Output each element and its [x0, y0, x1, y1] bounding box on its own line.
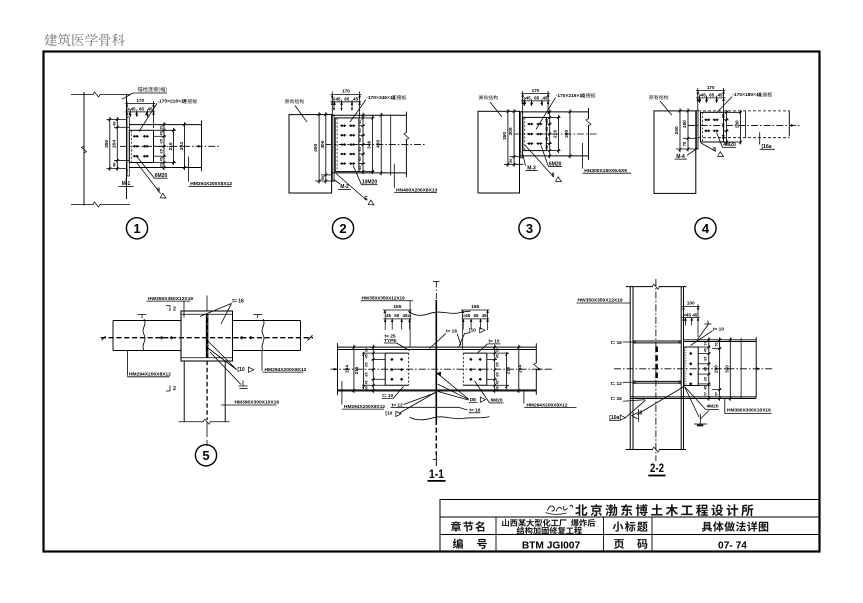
detail 1: detail number circle 1 — [126, 218, 147, 239]
section 1-1: right bolt pitch chain — [487, 352, 509, 354]
detail 1: dimension row 10 45 65 45 — [125, 111, 155, 113]
svg-text:45: 45 — [358, 120, 362, 124]
svg-text:170: 170 — [707, 85, 715, 90]
detail 2: dim chain 400 right — [380, 113, 382, 176]
section 2-2: leader plate corner to bottom weld — [685, 387, 700, 418]
svg-text:65: 65 — [496, 372, 500, 376]
svg-text:55: 55 — [722, 114, 726, 118]
detail 2: hidden plate edge dashed — [336, 118, 338, 172]
detail 3: dim chain 216 — [558, 115, 560, 153]
svg-text:70: 70 — [722, 123, 726, 127]
detail 3: end plate M-3 edge strip — [521, 112, 523, 158]
detail 5: column web double line — [205, 314, 207, 358]
section 2-2: weld flag lower — [700, 411, 709, 420]
section 1-1: upper break wave — [409, 311, 471, 315]
detail 4: bolt gauge arrows — [698, 96, 700, 100]
section 1-1: leader fan to D8 — [438, 374, 469, 400]
section 2-2: beam top flange double line — [684, 339, 757, 341]
detail 5: column box outline — [181, 311, 233, 361]
section 1-1: left plate bolts — [390, 358, 393, 361]
detail 1: column grid line — [83, 92, 85, 206]
detail 2: beam top flange — [332, 114, 406, 116]
detail 4: existing wall outline — [654, 111, 696, 193]
detail 5: left beam outline — [113, 320, 181, 322]
section 1-1: right dim row 10 45 65 45 — [461, 318, 489, 320]
detail 3: detail number circle 3 — [519, 218, 540, 239]
detail 1: bolt gauge arrows — [129, 110, 131, 115]
section 2-2: dim chain 53 280 57 — [712, 347, 722, 349]
title block: row label 编号 — [453, 538, 463, 548]
section 2-2: column left flange double line — [629, 287, 631, 450]
detail 3: beam break end line — [588, 108, 590, 119]
section 1-1: left end dim chain 216 — [363, 352, 365, 389]
svg-text:-170×180×10: -170×180×10 — [732, 92, 761, 98]
svg-text:t= 10: t= 10 — [713, 326, 724, 332]
svg-text:216: 216 — [168, 142, 174, 150]
svg-text:2-2: 2-2 — [650, 461, 664, 475]
detail 1: left dim chain 48 204 48 — [114, 126, 129, 128]
detail 4: dim chain 180 right — [740, 110, 742, 145]
detail 4: dimension 170 top — [697, 88, 699, 111]
detail 4: channel designation 16a — [759, 132, 761, 144]
detail 5: weld tee mark right — [253, 314, 262, 316]
svg-text:1: 1 — [133, 221, 140, 236]
svg-text:65: 65 — [545, 137, 549, 141]
section 2-2: bolt splice plate — [684, 347, 698, 386]
detail 5: detail number circle 5 — [195, 445, 216, 466]
detail 3: bolt gauge arrows — [523, 99, 525, 103]
detail 1: connection plate face — [129, 130, 153, 162]
detail 5: bottom beam end cut line with break — [179, 421, 204, 423]
section 2-2: extension line — [740, 338, 742, 398]
svg-text:65: 65 — [358, 128, 362, 132]
detail 1: end plate M-1 edge strip — [127, 117, 129, 176]
svg-text:07- 74: 07- 74 — [718, 541, 747, 552]
section 1-1: left dim row 45 65 45 10 — [383, 318, 411, 320]
detail 1: beam top flange — [129, 124, 201, 126]
detail 2: left dim chain 400/50 — [325, 112, 327, 183]
detail 1: section mark 8 — [137, 163, 161, 194]
section 2-2: section mark 8 lower — [637, 387, 684, 415]
detail 4: beam centerline — [688, 124, 800, 126]
section 2-2: dim row 10 45 45 — [682, 317, 700, 319]
detail 2: connection plate face — [335, 118, 359, 172]
svg-text:65: 65 — [365, 362, 369, 366]
section 1-1: beam bottom flange thick line — [338, 389, 537, 391]
svg-text:37: 37 — [703, 342, 707, 346]
detail 1: column mid break symbol — [82, 146, 87, 153]
svg-text:45: 45 — [159, 131, 163, 135]
detail 2: section mark E — [336, 174, 367, 201]
detail 1: column bottom cut line with break — [71, 204, 94, 206]
svg-text:400: 400 — [320, 140, 326, 148]
section 2-2: beam bottom flange level t=16 — [630, 396, 756, 398]
section 1-1: left bolt pitch chain — [362, 352, 385, 354]
svg-text:45: 45 — [482, 313, 488, 318]
svg-text:165: 165 — [393, 304, 401, 310]
detail 4: section mark 8 — [701, 143, 716, 152]
detail 4: channel top flange hidden line — [698, 110, 789, 112]
detail 3: left dim chain 300/50 — [513, 109, 515, 167]
svg-text:-170×216×10: -170×216×10 — [556, 93, 585, 99]
svg-text:180: 180 — [682, 120, 688, 128]
detail 2: end plate M-2 edge strip — [332, 115, 334, 181]
svg-text:300: 300 — [508, 127, 514, 135]
section 1-1: beam centerline — [331, 368, 554, 370]
section 1-1: left end dim chain 294 — [353, 345, 355, 393]
svg-text:55: 55 — [722, 134, 726, 138]
svg-text:65: 65 — [344, 96, 350, 101]
section 1-1: left dim 165 — [384, 310, 386, 330]
svg-text:50: 50 — [320, 176, 325, 180]
svg-text:45: 45 — [526, 96, 532, 101]
svg-text:3: 3 — [526, 221, 533, 236]
svg-text:70: 70 — [682, 141, 687, 146]
svg-text:346: 346 — [367, 140, 373, 148]
detail 5: left beam break curve — [143, 319, 145, 351]
svg-text:45: 45 — [130, 107, 136, 112]
svg-text:65: 65 — [703, 367, 707, 371]
svg-text:65: 65 — [139, 107, 145, 112]
svg-text:45: 45 — [542, 96, 548, 101]
detail 4: channel bottom flange hidden line — [698, 137, 789, 139]
svg-text:45: 45 — [496, 380, 500, 384]
section 1-1: beam right break end line — [535, 343, 537, 363]
section 1-1: right end dim chain 294 — [518, 345, 520, 393]
detail 4: channel end line — [788, 110, 790, 136]
detail 2: bolts 10M20 — [341, 124, 343, 127]
svg-text:45: 45 — [496, 354, 500, 358]
detail 2: existing wall outline — [289, 115, 332, 193]
detail 2: dimension row 10 45 65 45 — [331, 101, 362, 103]
svg-text:204: 204 — [111, 140, 117, 148]
svg-text:350: 350 — [502, 132, 508, 140]
section 1-1: left splice plate — [385, 352, 409, 354]
svg-text:250: 250 — [674, 126, 680, 134]
svg-text:2: 2 — [173, 386, 176, 392]
svg-text:45: 45 — [686, 312, 692, 317]
svg-text:45: 45 — [159, 157, 163, 161]
section 2-2: dim chain 390 — [729, 337, 731, 401]
svg-text:BTM JGI007: BTM JGI007 — [522, 541, 581, 552]
svg-text:45: 45 — [465, 313, 471, 318]
svg-text:400: 400 — [375, 140, 381, 148]
detail 3: right bolt pitch chain — [546, 116, 560, 118]
detail 4: left dim chain 180/70 — [687, 108, 689, 151]
section 1-1: beam left end line — [337, 343, 339, 395]
svg-text:45: 45 — [718, 93, 724, 98]
section 1-1: right end dim chain 216 — [506, 352, 508, 389]
svg-text:45: 45 — [692, 312, 698, 317]
title block: company name — [575, 504, 587, 515]
detail 3: left dim chain 350 — [507, 109, 509, 167]
svg-text:65: 65 — [358, 157, 362, 161]
svg-text:2: 2 — [339, 221, 346, 236]
svg-text:[10: [10 — [237, 367, 244, 373]
detail 2: bolt gauge arrows — [333, 100, 335, 108]
section 2-2: column web splice weld heavy dashes — [655, 347, 658, 381]
detail 5: column flange inner lines — [181, 313, 233, 315]
detail 4: left dim chain 250 — [679, 108, 681, 152]
section 1-1: left beam designation — [341, 381, 343, 405]
detail 4: channel section change line — [745, 111, 747, 138]
detail 3: label existing structure — [479, 95, 483, 99]
svg-text:280: 280 — [713, 365, 718, 373]
title block: logo scribble — [548, 505, 573, 511]
svg-text:300: 300 — [104, 140, 110, 148]
detail 5: weld tee mark left — [138, 314, 147, 316]
detail 1: left dim chain 300 — [107, 118, 128, 120]
title block: subtitle 具体做法详图 — [702, 522, 712, 532]
detail 5: right beam break curve — [262, 319, 264, 351]
detail 3: existing wall outline — [478, 111, 520, 193]
svg-text:37: 37 — [703, 392, 707, 396]
detail 5: section mark 2 lower — [169, 386, 171, 392]
svg-text:216: 216 — [354, 366, 359, 374]
svg-text:10: 10 — [126, 107, 130, 111]
detail 2: beam centerline — [326, 144, 425, 146]
page header text — [44, 34, 57, 46]
detail 1: dimension 170 top — [126, 101, 128, 117]
svg-text:45: 45 — [545, 145, 549, 149]
svg-text:t= 16: t= 16 — [611, 340, 622, 346]
section 1-1: right dim 165 — [462, 310, 464, 350]
svg-text:39: 39 — [365, 386, 369, 390]
title block: project name two lines — [502, 519, 509, 527]
detail 3: connection plate face — [523, 117, 547, 150]
detail 4: end plate M-4 edge strip — [696, 111, 698, 149]
detail 1: beam designation HM294X200X8X12 — [188, 157, 190, 182]
detail 4: right bolt pitch chain — [724, 111, 742, 113]
detail 1: beam end cut line — [201, 121, 203, 172]
svg-text:20: 20 — [159, 163, 163, 167]
detail 3: hidden plate edge dashed — [524, 117, 526, 150]
section 2-2: stiffener t=16 upper — [633, 340, 681, 342]
svg-text:65: 65 — [709, 93, 715, 98]
svg-text:170: 170 — [342, 89, 350, 94]
detail 5: horizontal centerline heavy dashes — [101, 337, 313, 339]
svg-text:300: 300 — [564, 130, 570, 138]
svg-text:8: 8 — [713, 147, 716, 153]
detail 5: plan bolts right — [240, 336, 243, 339]
section 2-2: beam end line — [755, 337, 757, 398]
title block: row label 章节名 — [451, 521, 461, 531]
detail 2: detail number circle 2 — [332, 218, 353, 239]
detail 1: column face line — [126, 95, 128, 199]
svg-text:65: 65 — [394, 313, 400, 318]
detail 5: bottom beam outline — [183, 361, 185, 422]
svg-text:45: 45 — [701, 93, 707, 98]
section 1-1: column top tick — [433, 281, 440, 283]
svg-text:65: 65 — [545, 127, 549, 131]
svg-text:10: 10 — [407, 314, 411, 318]
svg-text:65: 65 — [365, 372, 369, 376]
svg-text:216: 216 — [505, 366, 510, 374]
detail 5: plan bolts left — [160, 336, 163, 339]
detail 2: beam designation HN400X200X8X13 — [393, 164, 395, 188]
svg-text:65: 65 — [358, 138, 362, 142]
svg-text:65: 65 — [496, 362, 500, 366]
detail 3: section mark 8 — [525, 145, 554, 177]
detail 1: column top cut line with break — [71, 94, 94, 96]
svg-text:50: 50 — [508, 159, 513, 163]
svg-text:HW350X350X12X19: HW350X350X12X19 — [362, 295, 406, 300]
section 1-1: column weld triangle — [436, 372, 440, 376]
svg-text:39: 39 — [365, 348, 369, 352]
svg-text:45: 45 — [703, 348, 707, 352]
svg-text:t= 16: t= 16 — [611, 396, 622, 402]
detail 2: right bolt pitch chain — [359, 117, 375, 119]
detail 4: bolts 4M20 — [705, 119, 707, 122]
svg-text:8: 8 — [552, 172, 555, 178]
svg-text:1-1: 1-1 — [429, 467, 444, 481]
svg-text:39: 39 — [496, 348, 500, 352]
svg-text:450: 450 — [313, 143, 319, 151]
section 1-1: column lower end tick — [435, 455, 437, 466]
detail 2: beam bottom flange — [332, 172, 406, 174]
detail 5: section mark 2 upper — [169, 306, 171, 312]
detail 5: column vertical centerline above — [206, 296, 208, 312]
drawing border frame — [44, 52, 820, 552]
svg-text:65: 65 — [703, 377, 707, 381]
section 1-1: right splice plate — [463, 352, 487, 354]
svg-text:100: 100 — [687, 301, 695, 307]
detail 4: label existing structure — [649, 95, 653, 99]
section 2-2: dim 100 top — [683, 304, 685, 335]
svg-text:45: 45 — [703, 386, 707, 390]
svg-text:-170×346×10: -170×346×10 — [366, 95, 395, 101]
detail 2: label existing structure — [285, 99, 289, 103]
svg-text:165: 165 — [471, 304, 479, 310]
detail 5: bottom beam centerline below — [206, 422, 208, 437]
detail 3: dim chain 300 right — [569, 109, 571, 158]
section 1-1: right beam designation — [523, 391, 525, 404]
svg-text:45: 45 — [386, 313, 392, 318]
svg-text:20: 20 — [159, 126, 163, 130]
detail 1: dim chain 294 — [184, 122, 186, 170]
svg-text:390: 390 — [724, 365, 729, 373]
svg-text:65: 65 — [473, 313, 479, 318]
section 1-1: lower break wave — [410, 417, 490, 420]
detail 1: label anchor plate (top callout) — [138, 87, 143, 92]
section 2-2: column centerline — [655, 279, 657, 461]
section 2-2: beam centerline — [614, 368, 774, 370]
detail 5: weld symbol lower — [210, 352, 241, 385]
detail 3: dimension row 10 45 65 45 — [521, 100, 550, 102]
svg-text:294: 294 — [517, 365, 522, 373]
detail 3: beam centerline — [514, 133, 598, 135]
section 2-2: plate bolts 4M20 — [689, 352, 692, 355]
svg-text:t= 16: t= 16 — [446, 328, 457, 334]
section 1-1: right plate bolts — [469, 358, 472, 361]
svg-text:5: 5 — [202, 448, 209, 463]
detail 3: beam bottom flange — [521, 155, 589, 157]
svg-text:[10: [10 — [385, 411, 392, 417]
detail 3: beam top flange — [521, 111, 589, 113]
detail 5: weld callout 10 flag — [208, 341, 237, 370]
section 2-2: right bolt pitch chain — [698, 346, 710, 348]
detail 1: dim chain 216 — [173, 128, 175, 165]
detail 4: dimension row 10 45 65 45 — [696, 97, 725, 99]
detail 5: right beam outline — [233, 320, 301, 322]
svg-text:t= 12: t= 12 — [611, 381, 622, 387]
svg-text:45: 45 — [358, 166, 362, 170]
svg-text:-170×216×10: -170×216×10 — [157, 99, 186, 105]
detail 2: beam break end line — [405, 112, 407, 133]
detail 1: beam centerline — [120, 145, 221, 147]
svg-text:57: 57 — [715, 392, 719, 396]
svg-text:65: 65 — [534, 96, 540, 101]
svg-text:180: 180 — [735, 120, 741, 128]
section 2-2: column right flange double line — [680, 287, 682, 450]
detail 2: dimension 170 top — [331, 92, 333, 115]
detail 1: hidden plate edge dashed — [130, 130, 132, 162]
svg-text:170: 170 — [532, 88, 540, 93]
detail 4: hidden plate edge dashed — [701, 112, 703, 142]
detail 2: dim chain 346 — [371, 115, 373, 174]
svg-text:294: 294 — [345, 365, 350, 373]
svg-text:45: 45 — [353, 96, 359, 101]
detail 3: bolts 6M20 — [528, 123, 530, 126]
detail 4: detail number circle 4 — [695, 218, 716, 239]
svg-text:45: 45 — [335, 96, 341, 101]
detail 4: connection plate face — [701, 112, 724, 142]
detail 1: bolts 6M20 — [134, 135, 136, 138]
section 2-2: weld flag upper — [698, 324, 709, 340]
detail 5: vertical hidden centerline heavy dashes — [206, 318, 208, 420]
svg-text:45: 45 — [365, 354, 369, 358]
title block: row label 小标题 — [613, 522, 624, 532]
title block: outer and grid lines — [440, 500, 820, 552]
detail 1: right bolt pitch dim chain — [154, 129, 177, 131]
section 2-2: stiffener t=12 — [633, 380, 681, 382]
svg-text:2: 2 — [173, 307, 176, 313]
detail 3: dimension 170 top — [522, 91, 524, 114]
svg-text:65: 65 — [703, 357, 707, 361]
svg-text:4: 4 — [702, 221, 710, 236]
title block: row label 页码 — [614, 539, 624, 549]
svg-text:8: 8 — [639, 411, 642, 417]
detail 2: extension line right — [390, 115, 392, 176]
detail 1: beam bottom flange — [129, 167, 201, 169]
detail 2: left dim chain 450 — [318, 112, 320, 183]
svg-text:53: 53 — [715, 342, 719, 346]
svg-text:294: 294 — [179, 142, 185, 150]
svg-text:HM390X300X10X16: HM390X300X10X16 — [727, 408, 771, 414]
svg-text:t= 16: t= 16 — [232, 298, 244, 304]
svg-text:39: 39 — [496, 386, 500, 390]
section 1-1: beam top flange double line — [338, 346, 537, 348]
svg-text:4M20: 4M20 — [707, 403, 719, 409]
svg-text:45: 45 — [365, 380, 369, 384]
svg-text:45: 45 — [545, 119, 549, 123]
section 1-1: column web line — [435, 282, 437, 301]
section 2-2: beam designation HM390X300X10X16 — [724, 399, 726, 414]
svg-text:216: 216 — [553, 130, 559, 138]
svg-text:65: 65 — [358, 147, 362, 151]
svg-text:170: 170 — [136, 98, 144, 103]
svg-text:8: 8 — [157, 188, 160, 194]
detail 3: beam designation HN300X150X6.5X9 — [582, 143, 584, 169]
